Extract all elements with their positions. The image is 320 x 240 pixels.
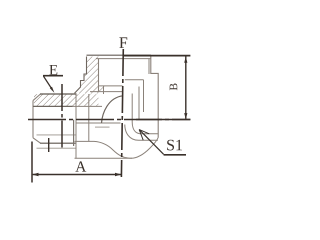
arrow A right xyxy=(115,173,121,176)
hatch region thread band xyxy=(34,94,99,106)
body outline staircase left xyxy=(75,57,87,94)
dimension B line xyxy=(185,57,187,119)
label B xyxy=(170,83,178,90)
hex corner edge xyxy=(95,126,110,128)
bore top line xyxy=(33,105,73,107)
thread chamfer bottom xyxy=(33,138,41,143)
female bore right wall xyxy=(148,59,150,74)
arrow A left xyxy=(32,173,38,176)
thread hex boundary xyxy=(75,95,77,159)
countersink edge line xyxy=(96,58,151,60)
thread wall right outer xyxy=(143,80,145,112)
S1 leader xyxy=(139,130,163,155)
thread crest top xyxy=(40,93,77,95)
horizontal centerline port axis xyxy=(28,119,190,121)
pilot bore left wall xyxy=(103,86,105,94)
bottom face xyxy=(75,138,159,159)
hex edge line xyxy=(76,122,121,124)
hex bottom edge and bend arc xyxy=(75,141,133,158)
tick thread end xyxy=(48,138,50,152)
S1 arrow leg 1 xyxy=(139,130,143,141)
thread root bottom xyxy=(37,134,77,136)
dimension A line xyxy=(33,174,121,176)
pilot bore right wall xyxy=(138,87,140,120)
thread crest bottom xyxy=(40,142,77,144)
thread bottom line xyxy=(99,85,123,87)
label E xyxy=(49,65,57,75)
vertical centerline thread xyxy=(61,84,63,150)
inner passage arc xyxy=(102,96,124,123)
thread end line right xyxy=(125,79,144,81)
S1 underline xyxy=(164,154,186,156)
label S1 xyxy=(167,140,182,151)
female bore left wall xyxy=(98,59,100,92)
hatch region body column xyxy=(75,57,99,94)
body top face xyxy=(87,54,152,56)
hatch region step xyxy=(99,86,105,91)
arrow B top xyxy=(184,57,187,63)
arrow B bottom xyxy=(184,113,187,119)
counterbore line xyxy=(90,91,122,93)
label F xyxy=(119,37,127,47)
extension line B bottom xyxy=(136,119,190,121)
E arrow xyxy=(50,87,55,93)
inner corner arc right xyxy=(132,94,158,134)
E leader xyxy=(44,76,53,90)
thread left end face xyxy=(32,101,34,138)
extension line A left xyxy=(31,142,33,183)
port boss right step xyxy=(151,57,158,138)
top extension line B xyxy=(123,55,190,57)
thread chamfer top xyxy=(33,94,41,101)
label A xyxy=(75,161,86,171)
vertical centerline F axis xyxy=(121,49,123,177)
hex front edge xyxy=(73,120,75,146)
hex left face xyxy=(88,94,90,142)
thread runout line xyxy=(37,147,77,149)
S1 arrow leg 2 xyxy=(139,130,149,134)
inner bend arc xyxy=(125,125,158,141)
E underline xyxy=(43,75,63,77)
